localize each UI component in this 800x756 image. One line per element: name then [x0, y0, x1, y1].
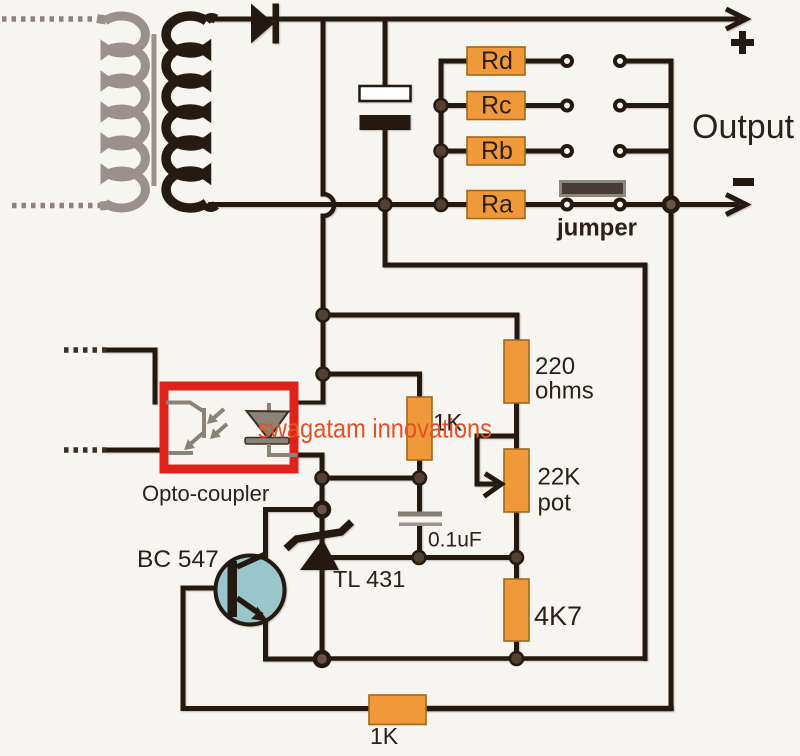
- wire vertical drop x=323 from top rail to hop: [321, 19, 326, 194]
- minus symbol: [733, 178, 754, 186]
- wire resistor bank left bus: [439, 61, 444, 205]
- transformer T1 primary winding: [97, 16, 145, 208]
- TL431 shunt regulator: [286, 522, 352, 570]
- junction node lower rail at cap: [379, 198, 392, 211]
- wire Rd row: bus to box, box to circle, circle to right bus: [441, 59, 671, 64]
- wire bottom node line from TL431 anode node to inner bus: [329, 656, 645, 661]
- resistor Rc: [467, 92, 525, 120]
- wire node 374 to 1K resistor top: [323, 374, 420, 397]
- plus symbol: [731, 31, 754, 54]
- wire opto input bottom lead: [107, 448, 160, 453]
- wire node 478 down to TL431 cathode ring: [320, 478, 325, 503]
- transformer T1 secondary winding: [166, 16, 216, 208]
- svg-text:TL 431: TL 431: [333, 566, 405, 592]
- wire Rb row: [441, 149, 671, 154]
- wire BC547 collector up to ring node: [266, 510, 316, 561]
- junction node lower rail at left bus: [435, 198, 448, 211]
- junction node bus 315: [317, 309, 330, 322]
- resistor Rd: [467, 47, 525, 75]
- wire 4K7 top lead: [514, 558, 519, 580]
- TL431 ring node bottom: [315, 652, 329, 666]
- svg-text:Rd: Rd: [481, 47, 513, 75]
- wire Rc row: [441, 103, 671, 108]
- wire 0.1uF top lead: [417, 478, 422, 512]
- wire node 315 to 220-ohm resistor top: [323, 315, 517, 340]
- potentiometer 22K: [484, 449, 580, 517]
- wire 4K7 bottom lead: [514, 641, 519, 659]
- wire 220-ohm bottom to pot top: [514, 403, 519, 449]
- resistor 1K middle: [407, 397, 462, 460]
- wire opto LED cathode out to bus down to node: [297, 455, 322, 478]
- junction node opto emitter 478: [316, 472, 329, 485]
- wire filter cap top lead: [383, 19, 388, 86]
- svg-text:22K: 22K: [538, 464, 581, 491]
- resistor Ra: [467, 191, 525, 219]
- svg-text:Output: Output: [692, 108, 795, 146]
- junction node bus 374: [317, 368, 330, 381]
- arrow - output: [726, 195, 746, 215]
- wire opto input top lead: [107, 350, 155, 402]
- wire BC547 emitter down to ring node: [266, 620, 316, 659]
- wire bottom 1K to outer right bus: [426, 706, 671, 712]
- wire top rail from transformer secondary to + arrow: [211, 17, 737, 22]
- wire vertical x=323 hop to opto collector connection: [321, 216, 326, 402]
- svg-text:ohms: ohms: [535, 378, 594, 405]
- capacitor C1 filter electrolytic: [360, 86, 411, 130]
- opto phototransistor emitter arrowhead: [184, 439, 195, 450]
- junction node left bus Rb: [435, 145, 448, 158]
- wire BC547 base wire left and down to bottom 1K: [183, 588, 369, 709]
- resistor 4K7: [504, 579, 582, 641]
- resistor 220 ohms: [504, 340, 594, 405]
- diode D1: [251, 4, 279, 44]
- wire pot wiper branch: [477, 436, 517, 484]
- opto phototransistor: [166, 403, 204, 454]
- transformer T1 core: [152, 34, 157, 186]
- svg-text:220: 220: [535, 353, 575, 380]
- svg-text:Ra: Ra: [481, 191, 513, 219]
- junction node pot bottom 557: [510, 551, 523, 564]
- wire opto emitter node line to 1K bottom junction: [322, 476, 420, 481]
- wire TL431 vertical through symbol: [320, 515, 325, 653]
- capacitor 0.1uF: [398, 512, 482, 552]
- switch terminal circles right column: [615, 56, 625, 210]
- wire lower rail (0V) from transformer secondary bottom to - arrow: [211, 202, 737, 207]
- junction node cap bottom 557: [413, 551, 426, 564]
- wire resistor bank right bus: [669, 61, 674, 205]
- wire hop over lower rail at x=323: [323, 194, 334, 216]
- junction node 1K bottom 478: [413, 472, 426, 485]
- wire inner right bus x=645 down: [643, 265, 648, 659]
- opto light arrows: [212, 409, 227, 435]
- svg-text:1K: 1K: [370, 723, 399, 749]
- svg-text:pot: pot: [538, 490, 572, 517]
- svg-text:jumper: jumper: [556, 215, 637, 242]
- opto-coupler box: [164, 386, 294, 469]
- svg-text:BC 547: BC 547: [137, 546, 219, 573]
- dotted primary lead bottom-left: [12, 203, 100, 209]
- arrow + output: [726, 9, 746, 29]
- junction node left bus Rc: [435, 99, 448, 112]
- dotted opto input lead bottom: [64, 447, 107, 453]
- wire 0.1uF bottom lead: [417, 526, 422, 558]
- wire TL431 ref line to pot/4K7 junction: [330, 555, 517, 560]
- junction node 4K7 bottom 658: [510, 652, 523, 665]
- wire pot bottom to ref line junction: [514, 512, 519, 558]
- dotted primary lead top-left: [2, 16, 97, 22]
- junction node lower rail at right bus: [664, 198, 678, 212]
- svg-text:Rb: Rb: [481, 137, 513, 165]
- wire opto LED top connection to vertical bus: [298, 401, 323, 405]
- wire outer right bus from lower rail down to bottom wire: [669, 205, 674, 709]
- svg-text:swagatam innovations: swagatam innovations: [258, 414, 492, 444]
- svg-text:4K7: 4K7: [534, 601, 582, 631]
- TL431 ring node top: [315, 503, 329, 517]
- resistor 1K bottom: [369, 695, 426, 749]
- svg-text:Opto-coupler: Opto-coupler: [142, 481, 269, 506]
- svg-text:Rc: Rc: [481, 92, 512, 120]
- wire 1K bottom lead to cap junction: [417, 460, 422, 478]
- wire filter cap bottom lead: [383, 130, 388, 205]
- jumper bar: [561, 182, 625, 196]
- wire feedback drop from lower rail node down and right to inner bus: [385, 205, 645, 266]
- dotted opto input lead top: [64, 347, 107, 353]
- resistor Rb: [467, 137, 525, 165]
- svg-text:0.1uF: 0.1uF: [428, 529, 482, 552]
- switch terminal circles left column: [562, 56, 572, 210]
- transistor Q1 BC547: [216, 554, 285, 625]
- opto LED triangle: [245, 403, 297, 455]
